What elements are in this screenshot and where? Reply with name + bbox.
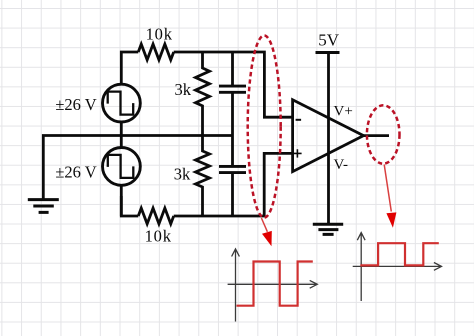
resistor 3k top [196, 52, 210, 136]
red arrow input to waveform [261, 218, 271, 246]
svg-text:5V: 5V [318, 31, 340, 50]
wire supply vertical [327, 53, 330, 224]
highlight ellipse output (red dashed) [367, 105, 400, 163]
resistor 3k bottom [196, 136, 210, 217]
capacitor C1 top leads [231, 52, 234, 136]
svg-text:±26 V: ±26 V [55, 95, 96, 114]
svg-text:3k: 3k [175, 80, 192, 99]
svg-text:V-: V- [334, 157, 348, 173]
svg-text:10k: 10k [146, 25, 173, 44]
capacitor C2 plates [219, 166, 246, 172]
resistor 10k bottom [138, 208, 173, 224]
wire left branch vertical [120, 122, 123, 216]
red trace left waveform [237, 262, 313, 306]
op-amp minus sign [296, 119, 302, 121]
svg-text:V+: V+ [334, 104, 353, 120]
source V2 circle [103, 148, 141, 186]
ground left [28, 200, 59, 213]
svg-text:10k: 10k [145, 226, 172, 245]
red trace right waveform [360, 243, 439, 265]
ground under op-amp [313, 224, 343, 234]
wire top node [121, 52, 292, 117]
svg-text:3k: 3k [174, 165, 191, 184]
wire bottom node [121, 153, 292, 216]
capacitor C1 plates [219, 86, 246, 92]
wire middle [43, 136, 233, 199]
axes left waveform [228, 249, 318, 322]
source V1 square-wave glyph [108, 92, 134, 115]
resistor 10k top [138, 44, 173, 60]
highlight ellipse input (red dashed) [248, 36, 281, 218]
op-amp plus sign [293, 149, 301, 157]
op-amp U1 triangle [293, 100, 364, 172]
5V supply bar [316, 51, 340, 54]
wire output stub [364, 134, 390, 137]
source V2 square-wave glyph [108, 155, 134, 178]
red arrow output to waveform [384, 165, 396, 228]
axes right waveform [353, 233, 442, 301]
capacitor C2 bottom leads [231, 136, 234, 217]
svg-text:±26 V: ±26 V [55, 162, 96, 181]
source V1 circle [103, 84, 141, 122]
